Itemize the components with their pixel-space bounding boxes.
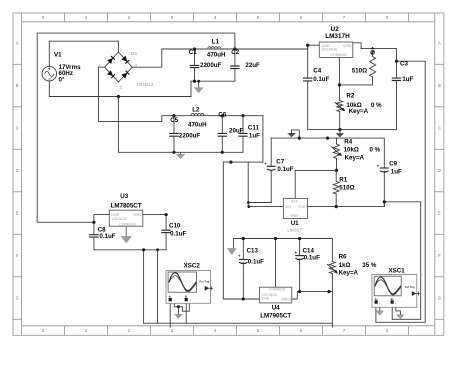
wire C1 bottom lead bbox=[194, 68, 196, 82]
svg-text:VOUT: VOUT bbox=[298, 205, 309, 209]
wire R2 ground stem bbox=[339, 130, 341, 134]
svg-text:C: C bbox=[16, 126, 19, 131]
wire U1 vin tap riser bbox=[248, 162, 283, 207]
inductor L1 bbox=[208, 47, 221, 49]
svg-text:470uH: 470uH bbox=[207, 52, 226, 59]
junction bridge pin2 neutral bbox=[117, 95, 120, 98]
wire U3 common stem bbox=[125, 226, 127, 236]
svg-text:LM317H: LM317H bbox=[325, 33, 350, 40]
wire C1 riser bbox=[194, 49, 196, 66]
capacitor C3 plates bbox=[392, 78, 401, 80]
svg-text:U3: U3 bbox=[120, 193, 128, 200]
wire riser rail to bus left bbox=[143, 250, 145, 323]
svg-text:XSC2: XSC2 bbox=[184, 262, 201, 269]
wire XSC2 gnd stem bbox=[177, 307, 179, 314]
svg-text:1uF: 1uF bbox=[391, 169, 402, 176]
wire C5 gnd stem bbox=[180, 152, 182, 154]
svg-text:C3: C3 bbox=[400, 60, 408, 67]
capacitor C13 polarized bbox=[238, 254, 248, 264]
svg-text:+: + bbox=[294, 250, 297, 255]
svg-text:C6: C6 bbox=[218, 112, 226, 119]
R5 top glyph bbox=[370, 47, 375, 57]
wire R1 bottom junction bbox=[335, 194, 337, 207]
svg-text:VOLTAGE: VOLTAGE bbox=[322, 47, 339, 51]
capacitor C14 polarized bbox=[294, 250, 304, 260]
svg-text:G: G bbox=[16, 296, 19, 301]
wire common rail to C10 bbox=[144, 215, 167, 250]
svg-text:COMMON: COMMON bbox=[119, 222, 136, 226]
potentiometer R4 bbox=[331, 144, 343, 159]
wire C4 riser bbox=[308, 45, 397, 129]
svg-text:B: B bbox=[438, 83, 441, 88]
wire XSC1 A minus bbox=[379, 302, 381, 311]
ground arrow under XSC2 bbox=[175, 314, 183, 318]
diode bottom-left bbox=[107, 70, 115, 78]
svg-text:U1: U1 bbox=[291, 220, 299, 227]
wire hook ground bbox=[292, 130, 300, 138]
svg-text:+: + bbox=[377, 164, 380, 169]
svg-text:C5: C5 bbox=[170, 117, 178, 124]
junction XSC2 minus common bbox=[177, 305, 180, 308]
wire R4 top bbox=[336, 138, 338, 144]
diode bridge D5 bbox=[105, 52, 133, 82]
svg-text:VREG: VREG bbox=[281, 298, 291, 302]
junction U2 input bbox=[306, 44, 309, 47]
svg-text:A: A bbox=[16, 41, 19, 46]
svg-text:1uF: 1uF bbox=[402, 76, 413, 83]
capacitor C1 plates bbox=[190, 66, 200, 68]
junction C13 top bbox=[242, 237, 245, 240]
regulator box U1 bbox=[283, 198, 308, 218]
svg-text:A: A bbox=[438, 41, 441, 46]
svg-text:0 %: 0 % bbox=[371, 102, 382, 109]
svg-text:R2: R2 bbox=[346, 93, 354, 100]
svg-text:VIN: VIN bbox=[285, 205, 291, 209]
svg-text:C10: C10 bbox=[169, 223, 181, 230]
junction neg rail node bbox=[229, 161, 232, 164]
svg-text:U2: U2 bbox=[331, 26, 340, 33]
ground arrow under U3 bbox=[121, 226, 131, 243]
junction R4 R1 U1 adj bbox=[335, 169, 338, 172]
capacitor C9 polarized bbox=[377, 164, 389, 173]
svg-text:C2: C2 bbox=[231, 49, 239, 56]
svg-text:20uF: 20uF bbox=[229, 128, 244, 135]
wire output loop right side bbox=[376, 61, 425, 322]
junction C5 bottom bbox=[172, 151, 175, 154]
svg-text:Ext Trig: Ext Trig bbox=[405, 285, 415, 289]
capacitor C7 polarized bbox=[264, 161, 276, 170]
svg-text:XSC1: XSC1 bbox=[389, 267, 406, 274]
junction C1 bottom bbox=[193, 80, 196, 83]
svg-text:2200uF: 2200uF bbox=[179, 133, 201, 140]
junction C5 top bbox=[172, 114, 175, 117]
ground arrow at C5 bbox=[176, 154, 185, 159]
wire R1 top bbox=[335, 170, 337, 181]
svg-text:V1: V1 bbox=[54, 51, 62, 58]
junction adj bus bbox=[326, 137, 329, 140]
junction C13 bottom bbox=[242, 297, 245, 300]
wire U3 input jog bbox=[94, 215, 109, 223]
junction R1 bottom U1 out bbox=[335, 205, 338, 208]
svg-text:0.1uF: 0.1uF bbox=[170, 230, 186, 237]
bottom ruler strip bbox=[22, 325, 435, 327]
capacitor C10 plates bbox=[161, 230, 170, 232]
svg-text:C13: C13 bbox=[247, 247, 259, 254]
junction C6 top bbox=[221, 114, 224, 117]
junction C11 top bbox=[241, 114, 244, 117]
wire bridge pin3 to positive rail bbox=[132, 49, 308, 67]
left ruler strip bbox=[21, 13, 23, 335]
wire U3 output bbox=[143, 214, 166, 216]
svg-text:0°: 0° bbox=[59, 76, 65, 83]
svg-text:D5: D5 bbox=[131, 51, 137, 57]
oscilloscope XSC1 bbox=[372, 275, 420, 308]
svg-text:470uH: 470uH bbox=[188, 121, 207, 128]
capacitor C4 plates bbox=[303, 78, 312, 81]
svg-text:22uF: 22uF bbox=[245, 62, 260, 69]
wire C3 riser bbox=[396, 61, 398, 78]
capacitor C11 plates bbox=[238, 133, 247, 136]
svg-text:35 %: 35 % bbox=[362, 262, 377, 269]
wire C7 bottom bbox=[248, 170, 271, 203]
regulator box U4 bbox=[260, 287, 292, 303]
wire lm317 out sense bbox=[308, 202, 421, 319]
inductor L2 bbox=[191, 113, 204, 115]
svg-text:R1: R1 bbox=[339, 176, 347, 183]
svg-text:1kΩ: 1kΩ bbox=[339, 262, 351, 269]
junction hook ground bbox=[298, 137, 301, 140]
AC source V1 bbox=[42, 66, 57, 81]
svg-text:E: E bbox=[438, 211, 441, 216]
wire XSC2 A probe bbox=[169, 301, 171, 328]
capacitor C5 plates bbox=[169, 133, 179, 136]
junction C7 bottom tap bbox=[247, 201, 250, 204]
ground arrow at C1 bbox=[194, 88, 203, 93]
svg-text:R4: R4 bbox=[344, 139, 352, 146]
svg-text:0.1uF: 0.1uF bbox=[248, 258, 264, 265]
wire bottom bus A bbox=[144, 322, 333, 324]
junction R2 bottom bbox=[338, 128, 341, 131]
junction C10 top bbox=[165, 213, 168, 216]
svg-text:2200uF: 2200uF bbox=[200, 62, 222, 69]
svg-text:+: + bbox=[264, 161, 267, 166]
wire C14 top bbox=[299, 239, 301, 292]
svg-text:10kΩ: 10kΩ bbox=[344, 147, 359, 154]
regulator box U3 bbox=[109, 210, 143, 226]
right ruler strip bbox=[434, 13, 436, 335]
diode top-right bbox=[121, 56, 129, 64]
junction C2 top bbox=[233, 47, 236, 50]
wire neutral riser to lower common bbox=[118, 97, 243, 153]
svg-text:G: G bbox=[438, 296, 441, 301]
svg-text:510Ω: 510Ω bbox=[352, 68, 367, 75]
wire U4 output jog bbox=[292, 292, 333, 328]
junction U2 common R5 bbox=[338, 83, 341, 86]
wire R6 bottom lead bbox=[331, 274, 333, 292]
wire riser rail to bus second bbox=[157, 250, 159, 323]
regulator box U2 bbox=[319, 42, 353, 58]
wire R4 bottom bbox=[336, 159, 338, 171]
junction C1 top bbox=[193, 47, 196, 50]
svg-text:VOLTAGE: VOLTAGE bbox=[111, 217, 128, 221]
wire C11 riser bbox=[242, 116, 244, 134]
wire U2 common to R2 bbox=[338, 58, 340, 101]
wire top loop C2 to U3 input bbox=[37, 33, 235, 222]
svg-text:0.1uF: 0.1uF bbox=[313, 76, 329, 83]
wire R5 bottom bbox=[339, 77, 372, 85]
wire U4 common left gnd stem bbox=[233, 239, 235, 249]
wire C9 bottom to out node bbox=[383, 202, 385, 207]
wire U1 adj bbox=[295, 170, 336, 198]
junction C6 bottom bbox=[221, 151, 224, 154]
wire U4 common rail bbox=[234, 239, 333, 262]
svg-text:0.1uF: 0.1uF bbox=[99, 233, 115, 240]
wire XSC2 B probe bbox=[185, 301, 187, 324]
ground symbol at R2 bbox=[336, 133, 345, 137]
svg-text:LM7905CT: LM7905CT bbox=[260, 313, 291, 320]
svg-text:C4: C4 bbox=[313, 68, 321, 75]
wire bridge pin4 to lower rail bbox=[98, 67, 263, 121]
diode bottom-right bbox=[121, 71, 129, 79]
wire R2 bottom bbox=[339, 112, 341, 130]
wire XSC1 A probe bbox=[375, 301, 377, 322]
svg-text:C: C bbox=[438, 126, 441, 131]
wire positive rail jog into U2 bbox=[308, 45, 320, 49]
ground arrow at U4 rail bbox=[227, 248, 236, 254]
svg-text:Key=A: Key=A bbox=[339, 270, 359, 277]
ground arrow XSC1 A bbox=[376, 311, 384, 315]
svg-text:VREG: VREG bbox=[133, 213, 143, 217]
svg-text:R6: R6 bbox=[339, 253, 347, 260]
svg-text:D: D bbox=[438, 168, 441, 173]
junction U4 common bbox=[274, 237, 277, 240]
top ruler strip bbox=[22, 21, 435, 23]
svg-text:L2: L2 bbox=[192, 107, 200, 114]
junction common rail left bbox=[142, 248, 145, 251]
capacitor C2 plates bbox=[230, 66, 239, 69]
junction ground stub top rail bbox=[197, 80, 200, 83]
svg-text:C7: C7 bbox=[276, 158, 284, 165]
svg-text:0.1uF: 0.1uF bbox=[277, 166, 293, 173]
wire XSC1 B plus bbox=[391, 302, 393, 320]
wire XSC2 A minus bbox=[174, 302, 178, 307]
svg-text:C9: C9 bbox=[389, 161, 397, 168]
svg-text:VREF: VREF bbox=[290, 214, 299, 218]
svg-text:0.1uF: 0.1uF bbox=[304, 254, 320, 261]
junction common rail right bbox=[156, 248, 159, 251]
junction C8 top bbox=[92, 221, 95, 224]
svg-text:COMMON: COMMON bbox=[269, 288, 286, 292]
wire C1 C2 bottom bus bbox=[191, 69, 235, 82]
resistor R5 zigzag bbox=[370, 57, 376, 78]
svg-text:VREG: VREG bbox=[343, 44, 353, 48]
svg-text:D: D bbox=[16, 168, 19, 173]
svg-text:+: + bbox=[238, 254, 241, 259]
svg-text:LM337: LM337 bbox=[287, 228, 302, 234]
svg-text:C11: C11 bbox=[248, 124, 260, 131]
oscilloscope XSC2 bbox=[166, 271, 213, 304]
svg-text:Key=A: Key=A bbox=[345, 155, 365, 162]
svg-text:C1: C1 bbox=[189, 49, 197, 56]
junction C14 top bbox=[298, 237, 301, 240]
wire C13 top bbox=[242, 239, 244, 300]
wire C8 lead bbox=[94, 222, 144, 250]
junction U1 vin tap bbox=[247, 205, 250, 208]
resistor R1 zigzag bbox=[333, 182, 339, 195]
svg-text:Key=A: Key=A bbox=[349, 108, 369, 115]
svg-text:1B4B42: 1B4B42 bbox=[136, 82, 153, 88]
svg-text:LINE: LINE bbox=[261, 297, 269, 301]
capacitor C6 plates bbox=[218, 133, 227, 136]
svg-text:U4: U4 bbox=[272, 305, 280, 312]
potentiometer R2 bbox=[335, 101, 346, 113]
svg-text:510Ω: 510Ω bbox=[339, 185, 354, 192]
wire XSC2 B minus bbox=[178, 302, 189, 312]
wire C7 top riser bbox=[270, 138, 272, 166]
wire U4 common pin bbox=[275, 239, 277, 288]
svg-text:COMMON: COMMON bbox=[331, 53, 348, 57]
svg-text:LM7805CT: LM7805CT bbox=[111, 202, 142, 209]
junction R6 bottom bbox=[327, 290, 330, 293]
junction C9 bottom bbox=[383, 200, 386, 203]
junction C14 bottom U4 out bbox=[298, 290, 301, 293]
wire V1 top to bridge pin1 bbox=[49, 41, 118, 66]
wire C6 riser bbox=[221, 116, 223, 153]
wire C2 riser bbox=[234, 49, 236, 66]
top/bottom cell dividers bbox=[13, 13, 444, 335]
ground symbol at hook bbox=[287, 133, 296, 137]
capacitor C8 plates bbox=[89, 235, 98, 237]
border frame bbox=[13, 13, 444, 335]
wire neg feed riser C11 to U1 U4 bbox=[223, 116, 263, 299]
wire U2 output bbox=[353, 43, 397, 61]
svg-text:Ext Trig: Ext Trig bbox=[199, 280, 209, 284]
svg-text:E: E bbox=[16, 211, 19, 216]
wire V1 bottom to neutral node bbox=[49, 81, 191, 97]
svg-text:1uF: 1uF bbox=[249, 133, 260, 140]
svg-text:B: B bbox=[16, 83, 19, 88]
diode top-left bbox=[107, 56, 115, 64]
svg-text:REF: REF bbox=[291, 200, 298, 204]
svg-text:L1: L1 bbox=[212, 39, 220, 46]
wire C5 riser bbox=[173, 116, 175, 153]
wire adj bus W1 bbox=[271, 138, 384, 202]
wire C1 gnd stem bbox=[198, 81, 200, 87]
svg-text:0 %: 0 % bbox=[370, 147, 381, 154]
ground arrow XSC1 B bbox=[397, 315, 405, 319]
junction C3 top bbox=[395, 60, 398, 63]
potentiometer R6 bbox=[327, 262, 339, 275]
wire XSC1 B minus bbox=[396, 302, 401, 315]
